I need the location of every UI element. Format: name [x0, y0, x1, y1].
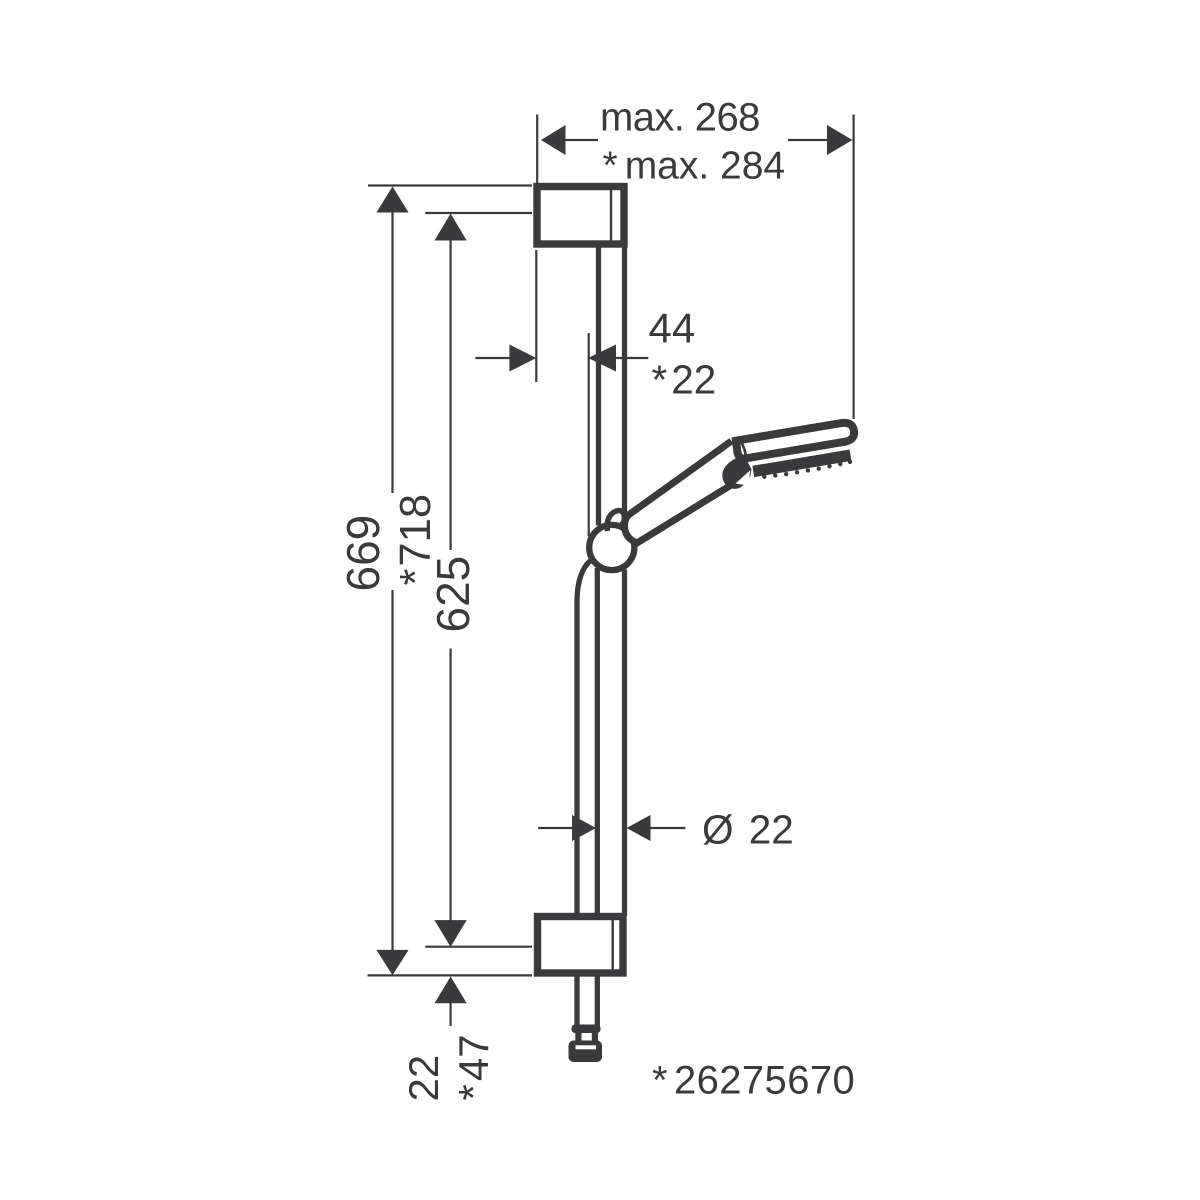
dim line dia22 right segment: [648, 827, 685, 829]
dim line 669 upper segment: [391, 210, 393, 493]
hose right edge below bracket: [595, 975, 600, 1027]
hose connector nut: [569, 1041, 603, 1063]
arrow 22-47 up: [435, 977, 467, 1004]
dim line 22-47 segment: [450, 1001, 452, 1026]
hose left edge below bracket: [574, 975, 579, 1027]
arrow max268 left: [541, 125, 566, 155]
hose connector neck: [575, 1031, 581, 1042]
wire rail right edge upper segment: [622, 247, 627, 526]
extension line 625 top: [425, 212, 532, 214]
nozzle bumps: [762, 459, 853, 480]
slider clamp hook: [607, 510, 624, 531]
extension line top left: [536, 115, 538, 184]
shower head body: [736, 421, 860, 483]
dim line max268 right segment: [788, 139, 830, 141]
dim line 44 left segment: [475, 357, 512, 359]
extension line top right: [852, 115, 854, 420]
hose left edge curve from slider: [577, 561, 591, 915]
svg-text:44: 44: [649, 305, 696, 352]
ball joint cone: [722, 456, 751, 489]
ball joint white wedge: [736, 470, 751, 486]
hand shower handle: [624, 441, 736, 543]
svg-text:*max. 284: *max. 284: [603, 145, 786, 188]
dim line 625 upper segment: [450, 238, 452, 550]
head nozzle strip: [753, 455, 850, 471]
extension line rail left: [588, 333, 590, 536]
arrow max268 right: [827, 125, 853, 155]
svg-text:669: 669: [337, 515, 389, 592]
svg-text:Ø 22: Ø 22: [702, 807, 794, 853]
top bracket: [537, 187, 624, 245]
hose right edge behind slider to bottom bracket: [595, 568, 600, 914]
arrow 669 bottom: [376, 950, 408, 975]
arrow dia22 right-pointing: [572, 815, 596, 841]
dim line dia22 left segment: [538, 827, 575, 829]
slider circle: [589, 525, 634, 570]
svg-text:*26275670: *26275670: [652, 1059, 855, 1103]
head left cap line: [741, 441, 747, 459]
arrow 625 top: [435, 214, 467, 241]
arrow 625 bottom: [435, 920, 467, 947]
svg-text:max. 268: max. 268: [600, 96, 760, 140]
arrow 44 right-pointing: [509, 345, 536, 372]
svg-text:*22: *22: [652, 357, 717, 403]
wire rail right edge lower segment: [622, 570, 627, 917]
arrow 44 left-pointing: [588, 345, 616, 372]
wire rail left edge (top bracket to slider): [596, 247, 601, 526]
svg-text:*47: *47: [450, 1034, 497, 1100]
arrow dia22 left-pointing: [627, 815, 651, 841]
dim line 625 lower segment: [450, 649, 452, 923]
bottom bracket: [538, 917, 624, 974]
extension line 669 bottom: [368, 974, 533, 976]
dim line 44 right segment: [613, 357, 648, 359]
hose connector collar: [572, 1025, 601, 1034]
extension line 625 bottom: [425, 946, 532, 948]
arrow 669 top: [376, 187, 408, 213]
extension line below top bracket: [535, 250, 537, 382]
dim line 669 lower segment: [391, 590, 393, 952]
dim line max268 left segment: [562, 139, 598, 141]
extension line 669 top: [368, 184, 532, 186]
svg-text:22: 22: [400, 1055, 447, 1102]
svg-text:625: 625: [427, 556, 479, 633]
